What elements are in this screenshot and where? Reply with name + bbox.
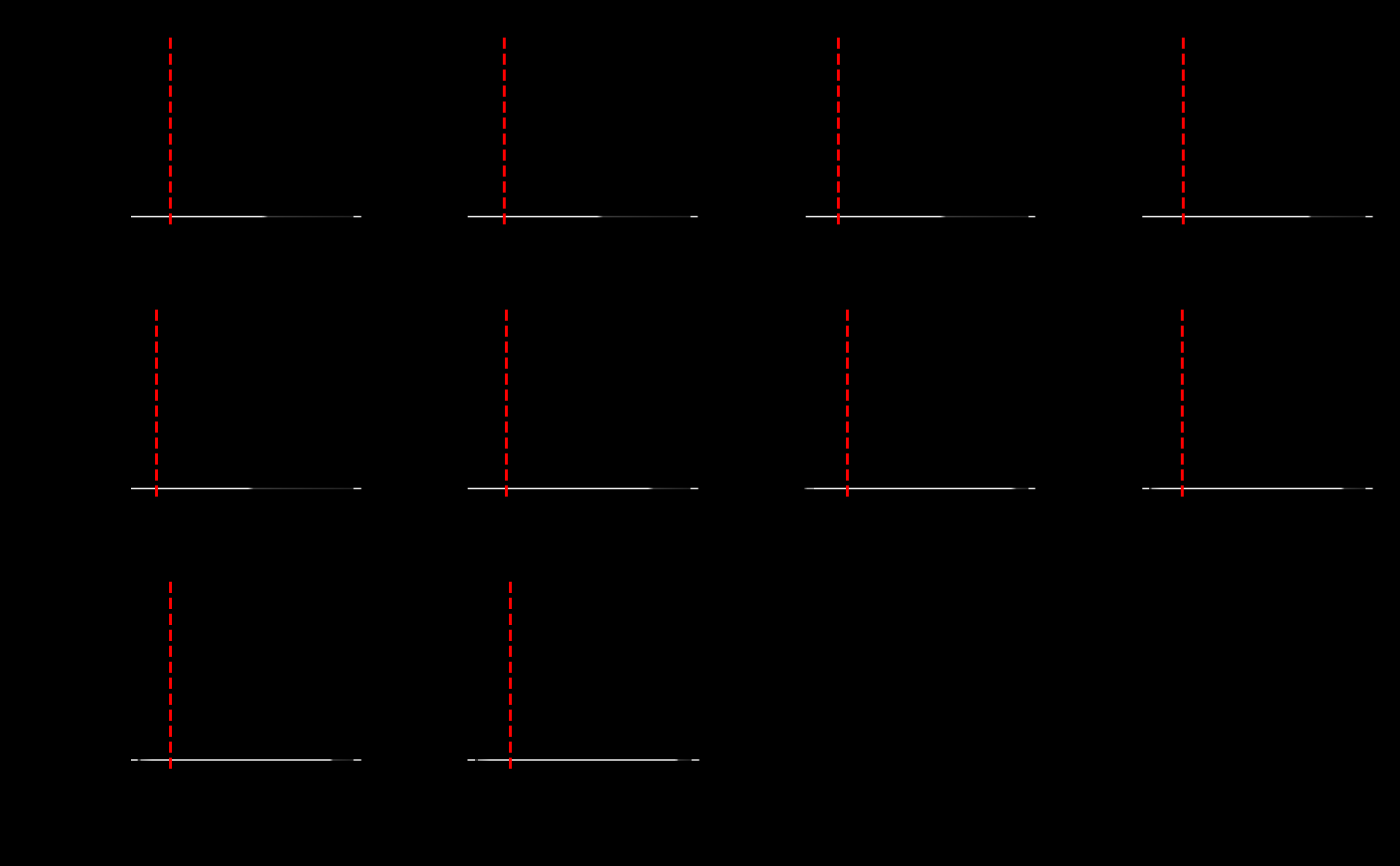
density baseline panel 4 [1142,216,1373,218]
density baseline panel 10 [468,759,701,761]
red dashed vline panel 5 [155,310,158,497]
red dashed vline panel 10 [509,582,512,769]
red dashed vline panel 3 [837,38,840,225]
density baseline panel 3 [806,216,1036,218]
red dashed vline panel 9 [169,582,172,769]
red dashed vline panel 4 [1182,38,1185,225]
density baseline panel 8 [1142,488,1373,490]
density baseline panel 5 [131,488,362,490]
density baseline panel 7 [805,488,1037,490]
density baseline panel 1 [131,216,362,218]
density baseline panel 2 [468,216,699,218]
red dashed vline panel 6 [505,310,508,497]
red dashed vline panel 2 [503,38,506,225]
red dashed vline panel 8 [1181,310,1184,497]
density baseline panel 9 [131,759,362,761]
density baseline panel 6 [468,488,699,490]
red dashed vline panel 7 [846,310,849,497]
red dashed vline panel 1 [169,38,172,225]
